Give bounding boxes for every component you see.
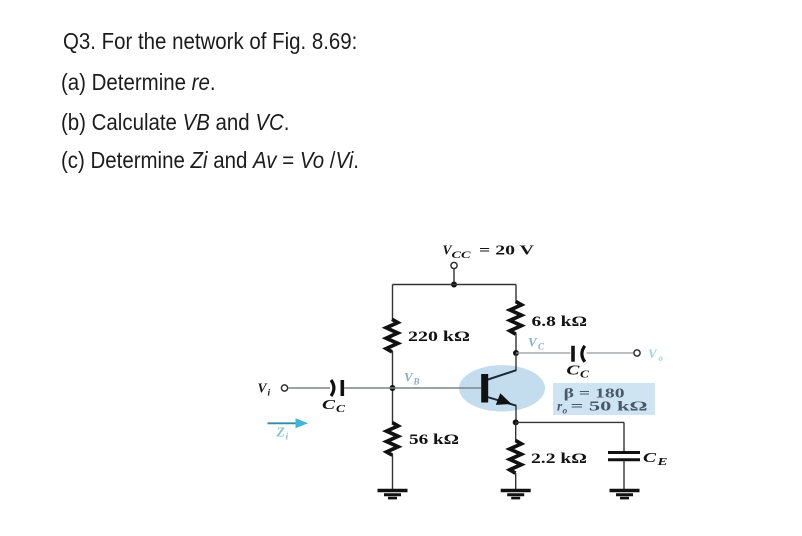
wire emitter to node bbox=[515, 406, 517, 423]
ground left bbox=[378, 491, 408, 499]
wire VCC terminal to top rail bbox=[453, 269, 455, 285]
question text line 2 bbox=[61, 71, 216, 95]
label 56 kOhm bbox=[409, 432, 459, 448]
wire input terminal to cap bbox=[288, 387, 330, 389]
resistor R3 6.8k zigzag bbox=[510, 302, 522, 335]
svg-text:2.2 kΩ: 2.2 kΩ bbox=[531, 451, 587, 467]
label VC bbox=[528, 335, 545, 352]
svg-text:V: V bbox=[258, 381, 268, 396]
Zi arrow bbox=[268, 418, 309, 428]
resistor R1 220k zigzag bbox=[386, 319, 398, 352]
capacitor CE plates bbox=[608, 453, 640, 460]
ground right bbox=[610, 491, 640, 499]
wire output cap to terminal bbox=[587, 352, 634, 354]
question text line 4 bbox=[61, 149, 359, 173]
svg-text:V: V bbox=[404, 370, 414, 385]
svg-text:= 20 V: = 20 V bbox=[479, 243, 534, 258]
transistor Q1 bbox=[481, 370, 516, 406]
svg-text:Z: Z bbox=[276, 425, 285, 440]
input terminal Vi bbox=[281, 385, 287, 391]
wire 2.2k to ground bbox=[515, 473, 517, 490]
label Vi bbox=[258, 381, 271, 399]
resistor R4 2.2k zigzag bbox=[510, 441, 522, 474]
info box beta/ro text bbox=[557, 387, 648, 417]
svg-text:C: C bbox=[336, 404, 345, 415]
label Vo bbox=[648, 346, 664, 363]
wire left branch upper bbox=[392, 285, 394, 321]
svg-text:220 kΩ: 220 kΩ bbox=[408, 329, 470, 345]
transistor highlight ellipse bbox=[459, 365, 545, 411]
label VCC = 20 V bbox=[443, 243, 535, 262]
junction dot emitter node bbox=[513, 419, 519, 425]
junction dot VB node bbox=[390, 385, 396, 391]
svg-text:CC: CC bbox=[452, 251, 472, 261]
svg-text:B: B bbox=[413, 377, 420, 387]
svg-text:6.8 kΩ: 6.8 kΩ bbox=[532, 314, 588, 330]
svg-text:56 kΩ: 56 kΩ bbox=[409, 432, 459, 448]
output terminal Vo bbox=[634, 350, 640, 356]
wire cap to base rail bbox=[344, 387, 481, 389]
wire VC node to collector bbox=[515, 353, 517, 371]
label 220 kOhm bbox=[408, 329, 470, 345]
ground middle bbox=[501, 491, 531, 499]
svg-text:V: V bbox=[528, 335, 538, 350]
svg-text:C: C bbox=[322, 398, 336, 413]
label Zi bbox=[276, 425, 289, 443]
svg-text:E: E bbox=[656, 457, 668, 468]
wire CE branch down bbox=[623, 422, 625, 451]
wire emitter node to CE branch bbox=[516, 421, 624, 423]
svg-text:i: i bbox=[268, 389, 271, 399]
capacitor CC input plates bbox=[331, 380, 342, 396]
question text line 1 bbox=[63, 30, 357, 54]
wire right branch upper bbox=[515, 285, 517, 303]
junction dot VC node bbox=[513, 350, 519, 356]
wire top rail bbox=[393, 284, 517, 286]
question text line 3 bbox=[61, 111, 289, 135]
wire left branch lower bbox=[392, 455, 394, 490]
svg-text:V: V bbox=[648, 346, 658, 361]
info box beta/ro background bbox=[553, 383, 655, 415]
junction dot top rail bbox=[451, 282, 457, 288]
label CC output bbox=[566, 364, 589, 381]
label CE bbox=[643, 451, 668, 468]
svg-text:i: i bbox=[286, 433, 289, 443]
wire left branch mid bbox=[392, 351, 394, 423]
label CC input bbox=[322, 398, 345, 415]
wire CE to ground bbox=[623, 461, 625, 490]
label 6.8 kOhm bbox=[532, 314, 588, 330]
svg-text:o: o bbox=[563, 407, 568, 417]
wire 6.8k to VC node bbox=[515, 334, 517, 354]
resistor R2 56k zigzag bbox=[386, 423, 398, 456]
wire emitter node down bbox=[515, 422, 517, 441]
svg-text:o: o bbox=[659, 353, 664, 363]
label 2.2 kOhm bbox=[531, 451, 587, 467]
wire VC node to output cap bbox=[516, 352, 571, 354]
svg-text:C: C bbox=[580, 370, 589, 381]
svg-text:C: C bbox=[538, 342, 545, 352]
VCC terminal bbox=[451, 262, 457, 268]
svg-text:C: C bbox=[643, 451, 657, 466]
svg-text:C: C bbox=[566, 364, 580, 379]
capacitor CC output plates bbox=[573, 346, 585, 362]
svg-text:= 50 kΩ: = 50 kΩ bbox=[571, 399, 648, 414]
label VB bbox=[404, 370, 420, 387]
